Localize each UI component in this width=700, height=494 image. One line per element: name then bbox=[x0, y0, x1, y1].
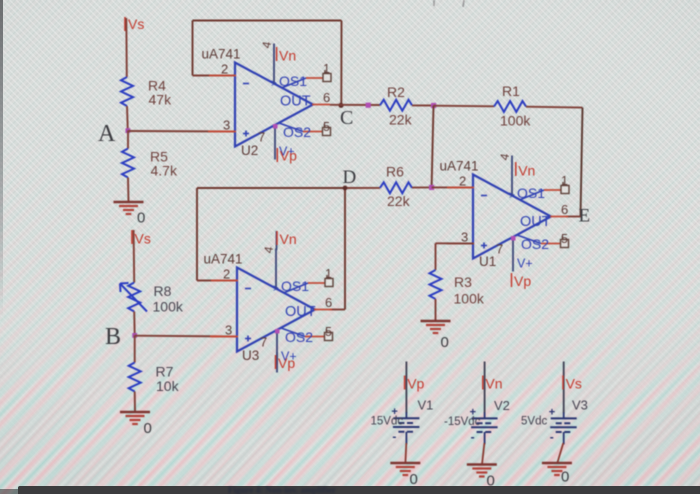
svg-text:100k: 100k bbox=[500, 113, 531, 129]
svg-text:A: A bbox=[98, 121, 116, 147]
wire junction to U1 pin2 bbox=[432, 186, 474, 188]
node B bbox=[132, 333, 137, 338]
svg-text:Vn: Vn bbox=[485, 376, 502, 392]
svg-text:Vp: Vp bbox=[407, 376, 424, 392]
svg-text:R6: R6 bbox=[386, 164, 404, 180]
resistor R4 bbox=[121, 77, 133, 106]
svg-text:Vs: Vs bbox=[135, 231, 151, 247]
resistor R6 bbox=[380, 182, 412, 193]
svg-text:R3: R3 bbox=[454, 274, 472, 290]
wire U2 out to R2 bbox=[330, 104, 380, 106]
svg-text:0: 0 bbox=[144, 420, 152, 437]
variable resistor R8 bbox=[120, 283, 147, 312]
op-amp U3 bbox=[204, 245, 334, 364]
wire to U1 out bbox=[566, 216, 581, 218]
net label Vp (U2 pin7) bbox=[277, 148, 297, 164]
wire U1 pin3 to R3 bbox=[436, 242, 475, 244]
junction U2 out / feedback bbox=[338, 103, 343, 108]
wire junction to R1 bbox=[434, 105, 495, 108]
svg-text:B: B bbox=[105, 324, 121, 350]
svg-text:R8: R8 bbox=[154, 283, 172, 299]
wire V2 bottom bbox=[482, 443, 484, 465]
net label Vn (U3 pin4) bbox=[277, 231, 297, 247]
wire Vs to R8 bbox=[133, 230, 136, 283]
svg-text:R2: R2 bbox=[387, 84, 405, 100]
wire R7 to ground bbox=[134, 392, 136, 413]
ground (V3) bbox=[542, 463, 572, 475]
dark screen edge left bbox=[0, 0, 3, 320]
wire R8 to node B bbox=[133, 312, 136, 336]
wire R3 to ground bbox=[435, 299, 437, 321]
node A bbox=[126, 128, 131, 133]
resistor R1 bbox=[494, 101, 526, 112]
wire right feedback down to node E bbox=[581, 108, 583, 217]
svg-text:V2: V2 bbox=[494, 398, 510, 413]
wire V1 bottom bbox=[404, 443, 407, 463]
svg-text:Vp: Vp bbox=[278, 355, 295, 371]
net label Vn (U1 pin4) bbox=[516, 162, 536, 179]
wire D to R6 bbox=[345, 187, 380, 189]
ground (branch A) bbox=[114, 202, 144, 214]
svg-text:15Vdc: 15Vdc bbox=[371, 416, 404, 428]
wire R4 to node A bbox=[126, 106, 129, 131]
svg-text:10k: 10k bbox=[156, 378, 180, 394]
svg-text:Vp: Vp bbox=[514, 273, 531, 289]
svg-text:-15Vdc: -15Vdc bbox=[444, 416, 481, 428]
svg-text:C: C bbox=[340, 107, 353, 129]
wire R1 to right corner bbox=[526, 106, 583, 109]
faint cut-off marks top bbox=[433, 0, 435, 6]
net label Vs (branch B) bbox=[132, 230, 151, 247]
wire U3 pin7 down (Vp) bbox=[276, 352, 278, 373]
wire V1 top bbox=[405, 362, 407, 414]
svg-text:R1: R1 bbox=[502, 83, 520, 99]
wire U3 out bbox=[330, 309, 345, 311]
svg-text:0: 0 bbox=[137, 210, 145, 227]
wire U2 feedback loop bbox=[193, 21, 342, 107]
net label Vn (V2) bbox=[483, 376, 503, 392]
wire V3 bottom bbox=[557, 443, 563, 463]
ground (branch B) bbox=[120, 412, 150, 424]
svg-text:D: D bbox=[343, 167, 357, 188]
resistor R7 bbox=[129, 363, 141, 392]
wire node A to R5 bbox=[127, 131, 129, 149]
wire Vs to R4 bbox=[125, 18, 128, 77]
svg-text:100k: 100k bbox=[153, 299, 184, 315]
svg-text:0: 0 bbox=[441, 334, 449, 351]
net label Vs (top) bbox=[125, 16, 144, 32]
svg-text:V1: V1 bbox=[418, 398, 434, 413]
net label Vp (V1) bbox=[405, 376, 425, 392]
svg-text:U1: U1 bbox=[479, 254, 496, 269]
resistor R2 bbox=[380, 100, 412, 111]
wire junction down to R6 line bbox=[432, 106, 434, 188]
svg-text:Vn: Vn bbox=[279, 48, 296, 64]
svg-text:Vp: Vp bbox=[280, 148, 297, 164]
svg-text:E: E bbox=[579, 206, 591, 227]
wire R6 to junction bbox=[412, 186, 432, 188]
wire R5 to ground bbox=[127, 178, 130, 203]
wire R2 to junction bbox=[412, 104, 434, 106]
resistor R5 bbox=[122, 149, 134, 178]
net label Vp (U3 pin7) bbox=[276, 355, 296, 371]
ground (V2) bbox=[467, 465, 497, 477]
source V2 battery bbox=[470, 406, 498, 444]
source V3 battery bbox=[549, 406, 577, 444]
svg-text:22k: 22k bbox=[387, 193, 411, 209]
dark bar at bottom bbox=[18, 486, 700, 494]
svg-text:22k: 22k bbox=[389, 112, 413, 128]
faint caption remnants at bottom bbox=[228, 485, 468, 494]
svg-text:0: 0 bbox=[487, 473, 495, 490]
svg-text:Vn: Vn bbox=[518, 163, 535, 179]
junction at node D corner bbox=[343, 186, 348, 191]
resistor R3 bbox=[430, 270, 442, 299]
svg-text:Vn: Vn bbox=[280, 231, 297, 247]
wire node B to U3 pin3 bbox=[135, 335, 238, 338]
svg-text:0: 0 bbox=[561, 469, 569, 486]
svg-text:Vs: Vs bbox=[566, 376, 582, 392]
svg-text:47k: 47k bbox=[149, 92, 173, 108]
node C marker bbox=[366, 103, 371, 108]
op-amp U2 bbox=[202, 40, 332, 159]
junction (R6 / up / U1 pin2) bbox=[429, 185, 434, 190]
svg-text:Vs: Vs bbox=[128, 16, 144, 32]
ground (V1) bbox=[390, 463, 420, 475]
svg-text:OUT: OUT bbox=[520, 214, 551, 230]
svg-text:100k: 100k bbox=[454, 291, 485, 307]
wire node B to R7 bbox=[134, 335, 136, 362]
net label Vn (U2 pin4) bbox=[277, 47, 297, 64]
wire U3 feedback loop bbox=[197, 188, 345, 310]
net label Vs (V3) bbox=[563, 376, 582, 392]
ground (R3) bbox=[421, 321, 451, 333]
svg-text:5Vdc: 5Vdc bbox=[521, 416, 547, 428]
net label Vp (U1 pin7) bbox=[512, 273, 532, 289]
wire V3 top bbox=[563, 362, 565, 414]
svg-text:U3: U3 bbox=[242, 348, 259, 363]
svg-text:OUT: OUT bbox=[280, 94, 311, 110]
wire U3 pin4 up (Vn) bbox=[276, 231, 278, 250]
svg-text:U2: U2 bbox=[241, 143, 258, 158]
svg-text:OUT: OUT bbox=[285, 304, 316, 320]
source V1 battery bbox=[391, 406, 419, 444]
wire V2 top bbox=[484, 362, 486, 414]
junction node (R2/R1/down) bbox=[431, 103, 436, 108]
svg-text:V3: V3 bbox=[572, 398, 588, 413]
wire node A to U2 pin3 bbox=[128, 130, 236, 133]
svg-text:4.7k: 4.7k bbox=[151, 163, 178, 179]
